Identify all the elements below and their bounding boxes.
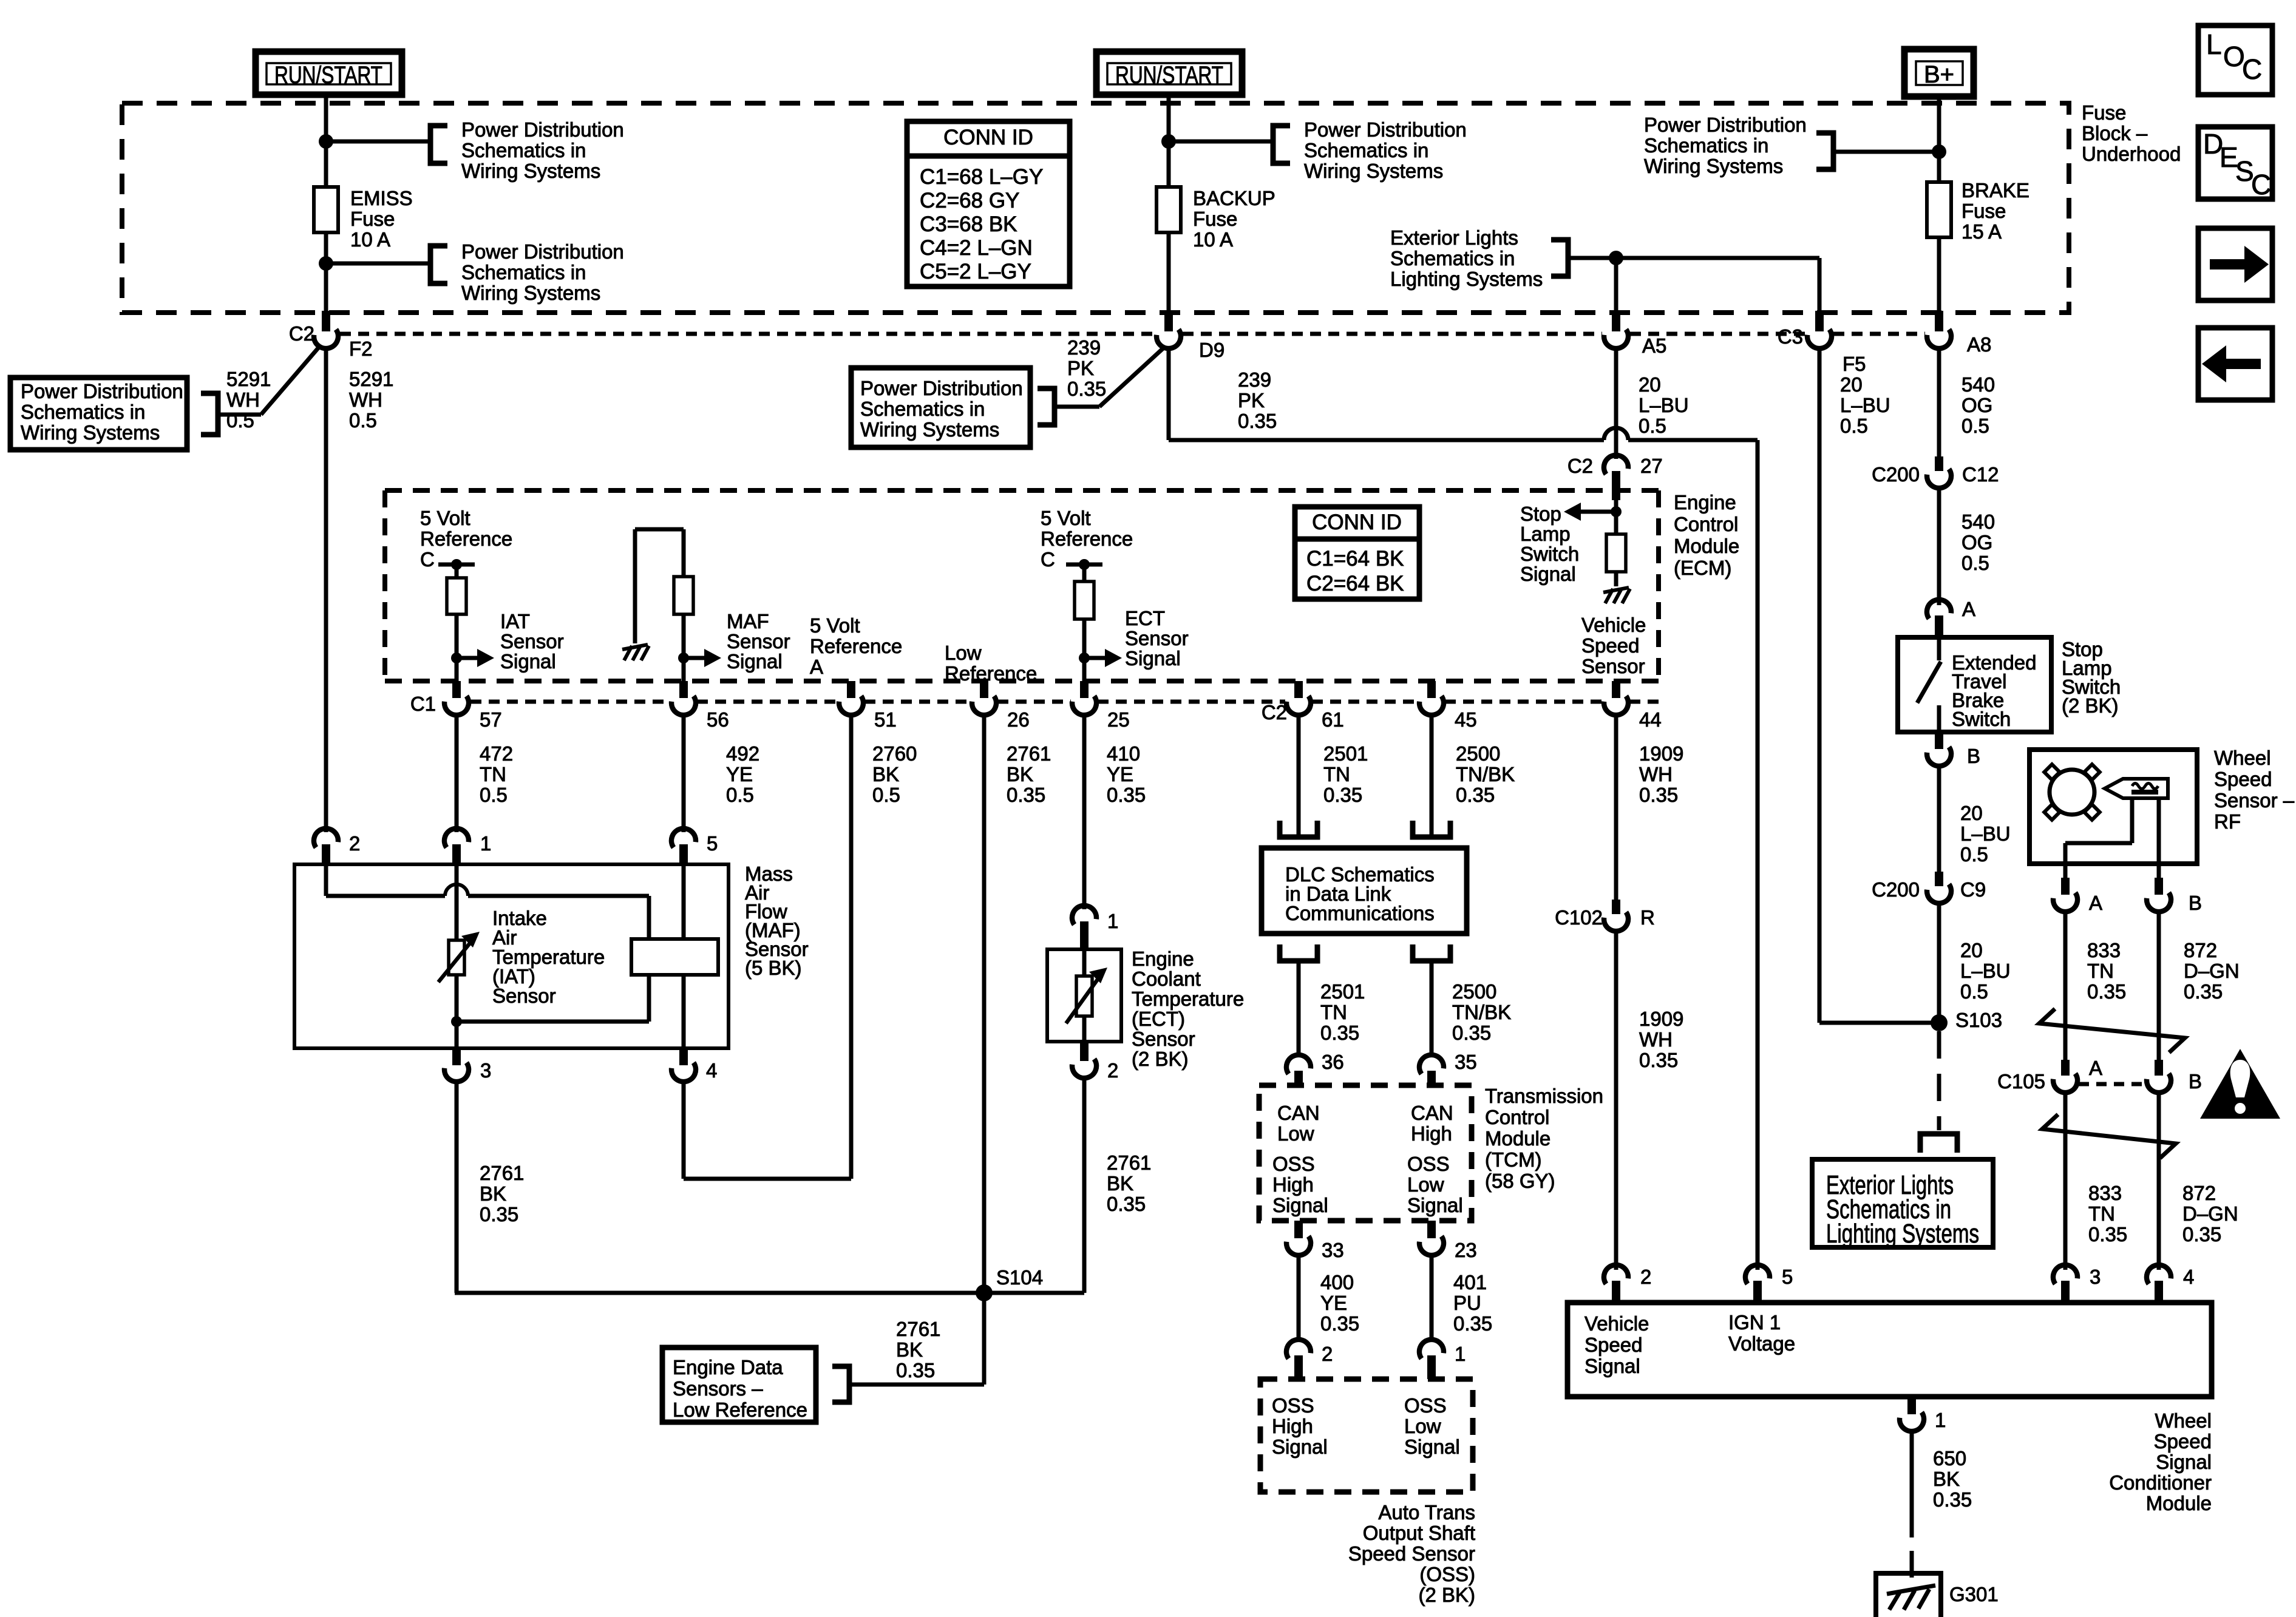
connector A8 stub xyxy=(1935,311,1943,331)
label S104 xyxy=(996,1266,1043,1289)
svg-text:Auto Trans: Auto Trans xyxy=(1378,1501,1475,1524)
svg-text:BK: BK xyxy=(1007,763,1033,785)
svg-text:IAT: IAT xyxy=(500,610,530,632)
svg-text:1: 1 xyxy=(1107,910,1118,932)
connector 4 arc (MAF) xyxy=(671,1062,698,1084)
svg-text:Low: Low xyxy=(1404,1415,1441,1437)
svg-text:Sensor: Sensor xyxy=(500,630,564,653)
svg-text:Wheel: Wheel xyxy=(2155,1409,2212,1432)
terminal cup CAN high bottom xyxy=(1413,944,1450,961)
legend box right-arrow xyxy=(2198,228,2272,300)
connector pin 45 stub xyxy=(1427,681,1436,698)
label 2 (OSS) xyxy=(1322,1343,1333,1365)
svg-text:(2 BK): (2 BK) xyxy=(1132,1048,1189,1070)
svg-text:540: 540 xyxy=(1961,510,1995,533)
label 1 (OSS) xyxy=(1455,1343,1466,1365)
label pin 44 xyxy=(1639,708,1662,731)
svg-text:Vehicle: Vehicle xyxy=(1581,614,1646,636)
label 833 TN 0.35 (lower) xyxy=(2088,1182,2127,1246)
svg-text:Signal: Signal xyxy=(1520,563,1576,585)
wire OSS high xyxy=(1297,1255,1301,1341)
label C9 xyxy=(1960,878,1986,901)
svg-text:C102: C102 xyxy=(1555,906,1603,929)
svg-text:Power Distribution: Power Distribution xyxy=(1304,118,1467,141)
svg-text:L–BU: L–BU xyxy=(1960,960,2011,982)
svg-text:56: 56 xyxy=(707,708,729,731)
svg-text:1909: 1909 xyxy=(1639,742,1683,765)
wire CAN low DLC to TCM xyxy=(1297,961,1301,1056)
svg-text:2760: 2760 xyxy=(872,742,917,765)
wire A8 to C200/C12 xyxy=(1937,348,1941,460)
svg-text:20: 20 xyxy=(1840,373,1863,396)
svg-text:2500: 2500 xyxy=(1456,742,1500,765)
connector pin 51 arc xyxy=(838,696,866,717)
label 2761 BK 0.35 (pin3) xyxy=(480,1162,524,1225)
junction dot MAF signal xyxy=(678,653,689,663)
connector C3/F5 arc xyxy=(1807,329,1834,351)
junction S104 xyxy=(976,1284,993,1301)
svg-text:0.5: 0.5 xyxy=(1960,843,1988,866)
svg-text:833: 833 xyxy=(2087,939,2121,961)
svg-text:BACKUP: BACKUP xyxy=(1193,187,1275,209)
svg-text:R: R xyxy=(1640,906,1655,929)
svg-text:Fuse: Fuse xyxy=(1961,200,2006,222)
label CAN Low (TCM) xyxy=(1277,1102,1320,1145)
junction S103 xyxy=(1931,1014,1948,1031)
connector pin 44 arc xyxy=(1603,696,1631,717)
label 2760 BK 0.5 xyxy=(872,742,917,806)
svg-text:492: 492 xyxy=(726,742,759,765)
svg-text:Signal: Signal xyxy=(2156,1451,2212,1473)
connector 1 stub (OSS) xyxy=(1427,1355,1436,1379)
svg-text:2: 2 xyxy=(1322,1343,1333,1365)
wire diagonal 5291 to left power distribution xyxy=(218,346,320,415)
svg-text:Wiring Systems: Wiring Systems xyxy=(1644,155,1783,177)
svg-text:MAF: MAF xyxy=(727,610,769,632)
svg-text:OSS: OSS xyxy=(1404,1394,1447,1417)
wire pin25 down xyxy=(1082,715,1087,909)
svg-text:5 Volt: 5 Volt xyxy=(810,614,860,637)
ground bridge MAF xyxy=(635,529,684,643)
svg-text:0.35: 0.35 xyxy=(2088,1223,2127,1246)
wire pin3 down xyxy=(455,1082,459,1293)
svg-text:20: 20 xyxy=(1639,373,1661,396)
connector pin 25 stub xyxy=(1080,681,1089,698)
connector line C2-F2 to D9 (dotted) xyxy=(340,332,1155,336)
svg-text:5: 5 xyxy=(707,832,718,855)
warning triangle xyxy=(2200,1049,2280,1119)
svg-text:Signal: Signal xyxy=(1272,1436,1328,1458)
box DLC Schematics xyxy=(1262,848,1467,934)
svg-text:WH: WH xyxy=(226,388,260,411)
bracket power distribution (right) xyxy=(1816,133,1833,169)
harness crossing slash upper xyxy=(2039,1009,2185,1053)
label EMISS Fuse 10 A xyxy=(350,187,413,251)
svg-text:Control: Control xyxy=(1674,513,1738,535)
svg-text:C2: C2 xyxy=(1262,701,1287,724)
bracket to power distribution (upper left) xyxy=(430,126,447,163)
connector A8 arc xyxy=(1926,329,1954,351)
connector C200/C12 arc xyxy=(1926,469,1954,490)
svg-text:C1: C1 xyxy=(410,693,436,715)
wire pin5 to MAF element xyxy=(682,866,686,939)
svg-text:0.5: 0.5 xyxy=(349,409,377,432)
svg-text:33: 33 xyxy=(1322,1239,1344,1261)
svg-text:B: B xyxy=(2189,892,2202,914)
label B (brake switch) xyxy=(1967,745,1980,767)
label C2 (ECM 27) xyxy=(1567,455,1593,477)
svg-text:S103: S103 xyxy=(1955,1009,2002,1031)
svg-text:Sensor: Sensor xyxy=(1132,1028,1195,1050)
svg-text:Power Distribution: Power Distribution xyxy=(21,380,183,402)
bracket to power distribution (upper left 2) xyxy=(430,246,447,283)
ECM sensor dashed box right xyxy=(1656,490,1661,681)
wire F5 down to S103 xyxy=(1819,348,1934,1023)
tone wheel circle xyxy=(2050,770,2094,815)
terminal cup CAN low top xyxy=(1280,821,1317,837)
svg-text:0.35: 0.35 xyxy=(1320,1312,1359,1335)
label Power Distribution Schematics (top left 1) xyxy=(461,118,624,182)
label BRAKE Fuse 15 A xyxy=(1961,179,2029,243)
wire pickup left leg xyxy=(2065,798,2132,880)
tone wheel teeth xyxy=(2044,764,2099,819)
label B (C105) xyxy=(2189,1070,2202,1093)
bracket power distribution box left xyxy=(201,393,218,435)
module pin 3 stub xyxy=(2061,1281,2070,1303)
label 1 (ECT) xyxy=(1107,910,1118,932)
label MAF Sensor Signal xyxy=(727,610,790,673)
wire to VSS resistor xyxy=(1614,512,1618,534)
connector C200/C12 stub xyxy=(1935,456,1943,471)
svg-text:Low Reference: Low Reference xyxy=(673,1398,807,1421)
connector A arc (brake switch) xyxy=(1924,597,1952,619)
connector 2 arc (OSS) xyxy=(1284,1337,1311,1359)
connector 2 stub (ECT) xyxy=(1080,1042,1089,1061)
label 833 TN 0.35 (upper) xyxy=(2087,939,2126,1003)
svg-text:RUN/START: RUN/START xyxy=(1115,62,1223,89)
svg-text:L–BU: L–BU xyxy=(1960,822,2011,845)
wire to engine data sensors xyxy=(849,1383,984,1387)
svg-text:0.35: 0.35 xyxy=(2182,1223,2221,1246)
svg-text:Signal: Signal xyxy=(1584,1355,1640,1377)
svg-text:57: 57 xyxy=(480,708,502,731)
connector 33 stub xyxy=(1294,1221,1303,1238)
label OSS High Signal (TCM) xyxy=(1272,1153,1328,1216)
wire drop to C3 xyxy=(1818,258,1822,314)
svg-text:Speed: Speed xyxy=(2214,768,2272,790)
resistor ECT pullup xyxy=(1075,581,1094,619)
ground symbol MAF xyxy=(622,645,649,660)
label S103 xyxy=(1955,1009,2002,1031)
resistor IAT pullup xyxy=(447,578,466,614)
junction dot exterior lights xyxy=(1609,251,1623,265)
label 27 xyxy=(1640,455,1663,477)
connector pin 25 arc xyxy=(1072,696,1099,717)
wire from RUN/START middle to fuse block xyxy=(1167,95,1171,187)
svg-text:PU: PU xyxy=(1453,1292,1481,1314)
label Low Reference xyxy=(945,642,1037,685)
connector C105 A arc xyxy=(2053,1073,2080,1095)
label module pin 4 xyxy=(2183,1266,2194,1288)
label C3 xyxy=(1778,325,1803,348)
svg-text:BK: BK xyxy=(1107,1172,1133,1195)
label 492 YE 0.5 xyxy=(726,742,759,806)
label D9 xyxy=(1199,339,1224,361)
module pin 2 arc xyxy=(1601,1263,1629,1284)
label 540 OG 0.5 (A8 wire) xyxy=(1961,373,1995,437)
module pin 4 stub xyxy=(2155,1281,2163,1303)
label Auto Trans Output Shaft Speed Sensor (OSS) (2 BK) xyxy=(1348,1501,1475,1606)
sensor pickup symbol xyxy=(2105,779,2168,798)
wire ECT pin2 down xyxy=(1082,1078,1087,1293)
connector B arc (brake switch) xyxy=(1926,747,1954,768)
svg-text:2500: 2500 xyxy=(1452,980,1496,1003)
svg-text:TN: TN xyxy=(1323,763,1350,785)
wire diagonal 239 to power distribution box xyxy=(1055,347,1164,407)
resistor ECT sensing element xyxy=(1076,976,1092,1016)
connector pin 26 arc xyxy=(971,696,999,717)
svg-text:Engine Data: Engine Data xyxy=(673,1356,783,1378)
wire D9 down xyxy=(1167,348,1171,440)
svg-text:Power Distribution: Power Distribution xyxy=(461,240,624,263)
svg-text:(58 GY): (58 GY) xyxy=(1485,1170,1555,1192)
svg-text:2501: 2501 xyxy=(1320,980,1365,1003)
svg-text:Sensor –: Sensor – xyxy=(2214,789,2295,812)
connector 1 arc (MAF) xyxy=(442,826,469,848)
wire IGN1 down xyxy=(1756,440,1760,1270)
label Power Distribution Schematics (top left 2) xyxy=(461,240,624,304)
wire 5V ref to ECT resistor xyxy=(1082,564,1087,581)
svg-text:OG: OG xyxy=(1961,394,1992,416)
ground G301 bracket xyxy=(1876,1573,1941,1617)
svg-text:2: 2 xyxy=(1640,1266,1651,1288)
wire drop to A5 xyxy=(1614,258,1618,314)
label Exterior Lights Schematics (top) xyxy=(1390,226,1543,290)
label A (C105) xyxy=(2089,1057,2102,1079)
svg-text:Coolant: Coolant xyxy=(1132,968,1201,990)
svg-text:Module: Module xyxy=(1485,1127,1550,1150)
svg-text:400: 400 xyxy=(1320,1271,1354,1293)
svg-text:C2: C2 xyxy=(1567,455,1593,477)
svg-text:Reference: Reference xyxy=(420,527,512,550)
svg-text:26: 26 xyxy=(1007,708,1030,731)
svg-text:D9: D9 xyxy=(1199,339,1224,361)
connector 2 arc (ECT) xyxy=(1072,1059,1099,1080)
label 2761 BK 0.35 (ECT) xyxy=(1107,1151,1151,1215)
wire C9 down to S103 xyxy=(1937,903,1941,1023)
svg-text:239: 239 xyxy=(1067,336,1101,359)
legend box left-arrow xyxy=(2198,328,2272,400)
wire 5V ref to IAT resistor xyxy=(455,564,459,578)
svg-text:410: 410 xyxy=(1107,742,1140,765)
svg-text:1: 1 xyxy=(1455,1343,1466,1365)
svg-text:0.5: 0.5 xyxy=(1840,415,1868,437)
svg-text:Wiring Systems: Wiring Systems xyxy=(461,282,600,304)
connector C200/C9 arc xyxy=(1926,884,1954,906)
wire OSS low xyxy=(1430,1255,1434,1341)
label Vehicle Speed Sensor (ECM) xyxy=(1581,614,1646,677)
svg-text:C: C xyxy=(2242,53,2262,85)
arrow ECT variable xyxy=(1066,968,1107,1023)
junction dot IAT signal xyxy=(451,653,462,663)
svg-text:A: A xyxy=(810,656,823,678)
label 4 (MAF) xyxy=(706,1059,717,1082)
label B (WSS) xyxy=(2189,892,2202,914)
wire pin26 down xyxy=(982,715,987,1293)
connector line A5 to C3 (dotted) xyxy=(1630,332,1805,336)
connector C3/F5 stub xyxy=(1815,311,1824,331)
svg-text:(2 BK): (2 BK) xyxy=(1418,1584,1475,1606)
label pin 45 xyxy=(1455,708,1477,731)
connector B arc (WSS) xyxy=(2146,892,2173,914)
svg-text:A5: A5 xyxy=(1642,334,1666,357)
svg-text:36: 36 xyxy=(1322,1051,1344,1073)
svg-text:Temperature: Temperature xyxy=(1132,988,1244,1010)
connector 2 stub (MAF) xyxy=(322,844,330,866)
svg-text:Signal: Signal xyxy=(1272,1194,1328,1216)
svg-text:Sensors –: Sensors – xyxy=(673,1377,763,1400)
wire branch to power distribution (right) xyxy=(1833,150,1939,154)
wire hop over IAT wire xyxy=(445,884,468,896)
label 401 PU 0.35 xyxy=(1453,1271,1492,1335)
svg-text:0.35: 0.35 xyxy=(1323,784,1362,806)
svg-text:B: B xyxy=(2189,1070,2202,1093)
svg-text:CAN: CAN xyxy=(1277,1102,1320,1124)
wire pin2 to MAF element xyxy=(326,896,649,939)
wire 27 into ECM xyxy=(1614,498,1618,512)
wire pin56 down xyxy=(682,715,686,832)
svg-text:YE: YE xyxy=(1107,763,1133,785)
connector 33 arc xyxy=(1286,1236,1313,1258)
svg-text:0.35: 0.35 xyxy=(1639,1049,1678,1071)
junction dot IAT low xyxy=(451,1016,462,1027)
svg-text:0.35: 0.35 xyxy=(1933,1488,1972,1511)
svg-text:0.35: 0.35 xyxy=(1639,784,1678,806)
svg-text:WH: WH xyxy=(1639,1028,1673,1051)
svg-text:0.35: 0.35 xyxy=(896,1359,935,1381)
svg-text:D–GN: D–GN xyxy=(2184,960,2240,982)
svg-text:C200: C200 xyxy=(1872,463,1920,486)
connector C2/27 arc xyxy=(1601,453,1629,475)
connector 1 arc (OSS) xyxy=(1417,1337,1444,1359)
label Wheel Speed Sensor - RF xyxy=(2214,747,2295,833)
svg-text:2761: 2761 xyxy=(896,1318,940,1340)
ground G301 symbol xyxy=(1887,1585,1935,1610)
svg-text:Wiring Systems: Wiring Systems xyxy=(860,418,999,441)
fuse EMISS xyxy=(314,187,338,232)
svg-text:CONN ID: CONN ID xyxy=(943,126,1033,149)
connector B stub (WSS) xyxy=(2155,878,2163,895)
connector A stub (WSS) xyxy=(2061,878,2070,895)
label C12 xyxy=(1962,463,1999,486)
wire EMISS fuse to connector xyxy=(324,232,328,314)
resistor stop lamp pulldown xyxy=(1606,534,1626,572)
connector 2 arc (MAF) xyxy=(311,826,339,848)
connector 5 stub (MAF) xyxy=(679,844,688,866)
svg-text:A8: A8 xyxy=(1967,333,1991,356)
label Transmission Control Module (TCM) (58 GY) xyxy=(1485,1085,1603,1192)
svg-text:Fuse: Fuse xyxy=(2082,101,2126,124)
svg-text:C3: C3 xyxy=(1778,325,1803,348)
svg-text:Schematics in: Schematics in xyxy=(1304,139,1428,161)
svg-text:25: 25 xyxy=(1107,708,1130,731)
connector A arc (WSS) xyxy=(2053,892,2080,914)
label Intake Air Temperature (IAT) Sensor xyxy=(492,907,605,1007)
CONN ID table (ECM) xyxy=(1295,507,1419,599)
connector line D9 to A5 (dotted) xyxy=(1183,332,1602,336)
svg-text:0.5: 0.5 xyxy=(1639,415,1666,437)
svg-text:5 Volt: 5 Volt xyxy=(420,507,470,529)
label 872 D-GN 0.35 (lower) xyxy=(2182,1182,2238,1246)
label 5291 WH 0.5 (left) xyxy=(226,368,271,432)
label 2761 BK 0.35 (pin26) xyxy=(1007,742,1051,806)
svg-text:Sensor: Sensor xyxy=(492,985,556,1007)
svg-text:BRAKE: BRAKE xyxy=(1961,179,2029,202)
svg-text:Voltage: Voltage xyxy=(1728,1332,1795,1355)
svg-text:C3=68 BK: C3=68 BK xyxy=(920,212,1017,236)
connector C2/27 stub xyxy=(1612,471,1620,500)
switch blade symbol xyxy=(1917,637,1941,732)
module pin 1 arc xyxy=(1899,1412,1926,1434)
label 650 BK 0.35 xyxy=(1933,1447,1972,1511)
svg-text:L–BU: L–BU xyxy=(1840,394,1890,416)
svg-text:PK: PK xyxy=(1067,357,1094,379)
connector C102 arc xyxy=(1603,912,1631,934)
svg-text:ECT: ECT xyxy=(1125,607,1165,629)
wire pin61 down xyxy=(1297,715,1301,837)
label 20 L-BU 0.5 (B wire) xyxy=(1960,802,2011,866)
connector pin 51 stub xyxy=(847,681,855,698)
fuse block underhood dashed box xyxy=(122,103,2069,313)
svg-text:Reference: Reference xyxy=(1041,527,1133,550)
svg-text:1909: 1909 xyxy=(1639,1008,1683,1030)
wire low reference bus xyxy=(455,1291,1084,1295)
wire IAT resistor down xyxy=(455,614,459,681)
label Fuse Block - Underhood xyxy=(2082,101,2181,165)
label 239 PK 0.35 (D9 wire) xyxy=(1238,368,1277,432)
label A8 xyxy=(1967,333,1991,356)
terminal box RUN/START (left) xyxy=(256,52,402,95)
connector D9 arc xyxy=(1156,329,1183,351)
svg-text:Lighting Systems: Lighting Systems xyxy=(1826,1219,1979,1249)
svg-text:Wiring Systems: Wiring Systems xyxy=(21,421,160,444)
svg-text:35: 35 xyxy=(1455,1051,1477,1073)
terminal cup CAN low bottom xyxy=(1280,944,1317,961)
svg-text:IGN 1: IGN 1 xyxy=(1728,1311,1781,1334)
svg-text:2: 2 xyxy=(1107,1059,1118,1082)
svg-text:Signal: Signal xyxy=(1407,1194,1463,1216)
svg-text:5: 5 xyxy=(1782,1266,1793,1288)
svg-text:OG: OG xyxy=(1961,531,1992,554)
label Stop Lamp Switch (2 BK) xyxy=(2062,638,2121,717)
svg-text:Conditioner: Conditioner xyxy=(2109,1471,2212,1494)
wire pin4 loop xyxy=(684,1082,851,1179)
label Wheel Speed Signal Conditioner Module xyxy=(2109,1409,2212,1514)
label module pin 2 xyxy=(1640,1266,1651,1288)
wire CAN high DLC to TCM xyxy=(1430,961,1434,1056)
wire branch to power distribution upper-left xyxy=(326,140,430,144)
svg-text:0.35: 0.35 xyxy=(1107,1193,1146,1215)
svg-text:TN: TN xyxy=(2087,960,2114,982)
svg-text:CAN: CAN xyxy=(1411,1102,1453,1124)
label pin 26 xyxy=(1007,708,1030,731)
svg-text:10 A: 10 A xyxy=(1193,228,1233,251)
svg-text:0.35: 0.35 xyxy=(1453,1312,1492,1335)
svg-text:3: 3 xyxy=(2090,1266,2101,1288)
label Power Distribution Schematics (middle top) xyxy=(1304,118,1467,182)
junction dot B+ branch xyxy=(1932,144,1946,159)
label Engine Coolant Temperature (ECT) Sensor (2 BK) xyxy=(1132,947,1244,1070)
